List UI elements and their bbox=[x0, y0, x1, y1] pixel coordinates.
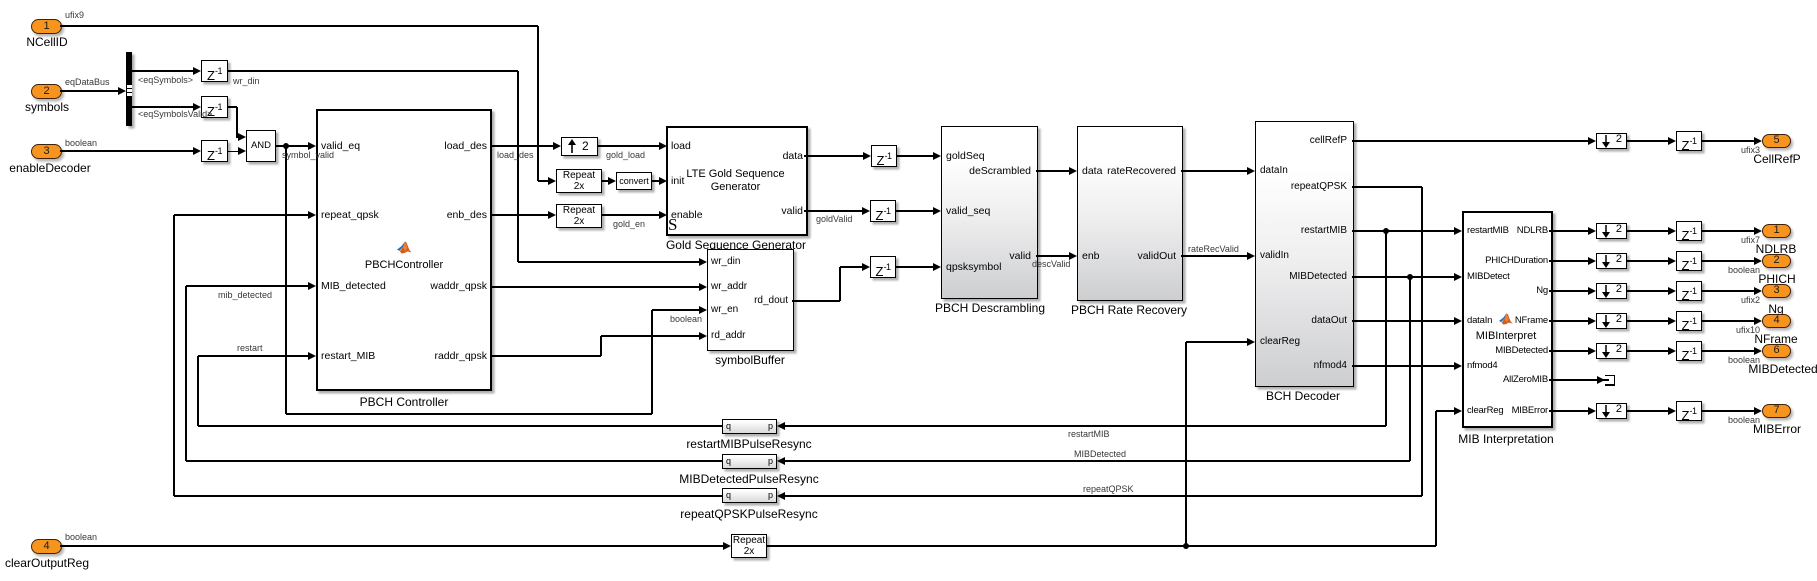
wire clearOutputReg to Repeat2x bbox=[60, 545, 723, 546]
unit delay Z3 enableDecoder bbox=[201, 140, 228, 162]
port label valid desc bbox=[911, 250, 1031, 262]
wire bus eqSymbols to unit delay bbox=[132, 70, 193, 71]
downsample 2 PHICH bbox=[1596, 253, 1627, 269]
block repeatQPSKPulseResync bbox=[722, 488, 777, 503]
downsample 2 MIBError bbox=[1596, 403, 1627, 419]
wire symbol_valid to wr_en bbox=[285, 146, 286, 414]
downsample 2 Ng bbox=[1596, 283, 1627, 299]
port label rateRecovered bbox=[1056, 165, 1176, 177]
junction symbol_valid bbox=[283, 143, 289, 149]
wire to downsample Ng bbox=[1549, 290, 1588, 291]
icon MATLAB logo PBCHController bbox=[397, 240, 412, 254]
label ufix9 bbox=[65, 10, 84, 20]
wire rateRecovered to dataIn bbox=[1181, 170, 1247, 171]
port label dataOut bch bbox=[1227, 315, 1347, 326]
junction MIBDetected bbox=[1407, 274, 1413, 280]
wire Z2 to AND bbox=[228, 106, 237, 107]
wire downsample to delay NFrame bbox=[1627, 320, 1668, 321]
label MIBInterpret bbox=[1356, 330, 1656, 342]
unit delay CellRefP bbox=[1676, 131, 1702, 151]
unit delay MIBDetected bbox=[1676, 341, 1702, 361]
icon S-function badge bbox=[668, 215, 677, 235]
subsystem PBCH Descrambling bbox=[941, 126, 1038, 299]
port label enable bbox=[671, 209, 703, 221]
label PBCH Descrambling bbox=[840, 301, 1140, 315]
port label clearReg mib bbox=[1467, 405, 1503, 416]
block Repeat 2x first bbox=[556, 169, 602, 193]
port label NDLRB mib bbox=[1428, 225, 1548, 236]
unit delay Z5 goldValid bbox=[870, 200, 896, 222]
port label qpsksymbol bbox=[946, 261, 1001, 273]
label MIBDetected bbox=[1633, 362, 1817, 376]
port label data rr bbox=[1082, 165, 1102, 177]
block Repeat 2x second bbox=[556, 204, 602, 228]
label Gold Sequence Generator bbox=[586, 238, 886, 252]
port label wr_din bbox=[711, 256, 740, 267]
port label restartMIB mib bbox=[1467, 225, 1509, 236]
wire gold data to unit delay bbox=[804, 155, 863, 156]
port label data bbox=[683, 150, 803, 162]
junction clearReg bbox=[1183, 543, 1189, 549]
wire Repeat to convert bbox=[602, 180, 608, 181]
label boolean bbox=[1640, 355, 1760, 365]
label wr_din bbox=[233, 76, 260, 86]
unit delay MIBError bbox=[1676, 401, 1702, 421]
unit delay Z2 eqSymbolsValid bbox=[201, 96, 228, 118]
icon MATLAB logo MIBInterpret bbox=[1499, 312, 1513, 325]
wire delay to outport MIBDetected bbox=[1702, 350, 1754, 351]
outport 2 PHICH bbox=[1762, 254, 1791, 268]
downsample 2 NFrame bbox=[1596, 313, 1627, 329]
unit delay Ng bbox=[1676, 281, 1702, 301]
wire NCellID to Repeat2x init bbox=[60, 25, 538, 26]
inport 3 enableDecoder bbox=[31, 144, 62, 159]
subsystem PBCH Rate Recovery bbox=[1077, 126, 1183, 301]
wire wr_din to symbolBuffer bbox=[228, 70, 518, 71]
label ufix2 bbox=[1640, 295, 1760, 305]
label eqDataBus bbox=[65, 77, 110, 87]
wire to downsample NDLRB bbox=[1549, 230, 1588, 231]
label boolean enableDecoder bbox=[65, 138, 97, 148]
port label dataIn mib bbox=[1467, 315, 1492, 326]
port label goldSeq bbox=[946, 150, 985, 162]
wire restartMIB to MIBInterpret bbox=[1352, 230, 1454, 231]
label symbols bbox=[0, 100, 197, 114]
port label load bbox=[671, 140, 691, 152]
wire downsample to delay CellRefP bbox=[1627, 140, 1668, 141]
inport 2 symbols bbox=[31, 84, 62, 99]
port label AllZeroMIB mib bbox=[1428, 374, 1548, 385]
unit delay Z1 eqSymbols bbox=[201, 60, 228, 82]
bus selector bbox=[126, 52, 132, 126]
label repeatQPSK bbox=[1083, 484, 1134, 494]
port label clearReg bch bbox=[1260, 336, 1300, 347]
subsystem MIB Interpretation bbox=[1462, 211, 1553, 428]
subsystem BCH Decoder bbox=[1255, 121, 1354, 387]
wire clearReg trunk bbox=[766, 545, 1436, 546]
wire to downsample NFrame bbox=[1549, 320, 1588, 321]
wire delay to outport NFrame bbox=[1702, 320, 1754, 321]
terminator AllZeroMIB bbox=[1605, 375, 1615, 376]
outport 5 CellRefP bbox=[1762, 134, 1791, 148]
label boolean wr_en bbox=[670, 314, 702, 324]
port label repeatQPSK bch bbox=[1227, 181, 1347, 192]
label ufix7 bbox=[1640, 235, 1760, 245]
label eqSymbols bbox=[138, 75, 193, 85]
wire repeatQPSK feedback bbox=[1352, 186, 1422, 187]
port label MIB_detected bbox=[321, 280, 386, 292]
wire to downsample PHICH bbox=[1549, 260, 1588, 261]
port label valid_eq bbox=[321, 140, 360, 152]
label boolean clearOutputReg bbox=[65, 532, 97, 542]
outport 3 Ng bbox=[1762, 284, 1791, 298]
outport 1 NDLRB bbox=[1762, 224, 1791, 238]
label boolean bbox=[1640, 415, 1760, 425]
port label cellRefP bbox=[1227, 135, 1347, 146]
wire convert to init bbox=[652, 180, 659, 181]
wire dataOut to dataIn bbox=[1352, 320, 1454, 321]
label repeatQPSKPulseResync bbox=[599, 507, 899, 521]
subsystem symbolBuffer bbox=[707, 249, 794, 351]
label PBCH Controller bbox=[254, 395, 554, 409]
port label repeat_qpsk bbox=[321, 209, 379, 221]
wire gold valid to unit delay bbox=[804, 210, 862, 211]
block restartMIBPulseResync bbox=[722, 419, 777, 434]
wire MIBDetected feedback bbox=[1409, 277, 1410, 461]
port label Ng mib bbox=[1428, 285, 1548, 296]
label MIBError bbox=[1627, 422, 1817, 436]
wire Z4 to goldSeq bbox=[897, 155, 933, 156]
wire rateRecValid to validIn bbox=[1181, 255, 1247, 256]
wire bus eqSymbolsValid to unit delay bbox=[132, 106, 193, 107]
wire MIBDetected resync to controller bbox=[186, 460, 722, 461]
label symbolBuffer bbox=[600, 353, 900, 367]
wire MIBDetected to MIBInterpret bbox=[1352, 276, 1454, 277]
label CellRefP bbox=[1627, 152, 1817, 166]
wire symbols to bus selector bbox=[60, 90, 118, 91]
port label PHICHDuration mib bbox=[1428, 255, 1548, 266]
wire delay to outport MIBError bbox=[1702, 410, 1754, 411]
outport 6 MIBDetected bbox=[1762, 344, 1791, 358]
wire restartMIB resync to controller bbox=[198, 425, 722, 426]
port label MIBDetect mib bbox=[1467, 271, 1510, 282]
label rateRecValid bbox=[1188, 244, 1239, 254]
wire delay to outport PHICH bbox=[1702, 260, 1754, 261]
junction restartMIB bbox=[1383, 228, 1389, 234]
wire downsample to delay Ng bbox=[1627, 290, 1668, 291]
port label init bbox=[671, 175, 684, 187]
port label MIBError mib bbox=[1428, 405, 1548, 416]
outport 4 NFrame bbox=[1762, 314, 1791, 328]
unit delay Z6 qpsksymbol bbox=[870, 256, 896, 278]
label ufix3 bbox=[1640, 145, 1760, 155]
label gold_en bbox=[613, 219, 645, 229]
label mib_detected bbox=[218, 290, 272, 300]
wire downsample to delay MIBDetected bbox=[1627, 350, 1668, 351]
label restartMIB bbox=[1068, 429, 1110, 439]
wire to downsample MIBDetected bbox=[1549, 350, 1588, 351]
wire delay to outport NDLRB bbox=[1702, 230, 1754, 231]
outport 7 MIBError bbox=[1762, 404, 1791, 418]
wire gold_en bbox=[602, 214, 659, 215]
wire descValid to enb bbox=[1036, 255, 1069, 256]
port label waddr_qpsk bbox=[367, 280, 487, 292]
port label wr_en bbox=[711, 304, 738, 315]
wire to downsample MIBError bbox=[1549, 410, 1588, 411]
wire repeatQPSK resync to controller bbox=[174, 495, 722, 496]
wire Z3 to AND bbox=[228, 151, 238, 152]
wire enb_des to Repeat2x bbox=[492, 214, 548, 215]
downsample 2 NDLRB bbox=[1596, 223, 1627, 239]
label MIBDetectedPulseResync bbox=[599, 472, 899, 486]
port label validIn bch bbox=[1260, 250, 1289, 261]
wire deScrambled to data bbox=[1036, 170, 1069, 171]
block MIBDetectedPulseResync bbox=[722, 454, 777, 469]
label gold_load bbox=[606, 150, 645, 160]
port label MIBDetected bch bbox=[1227, 271, 1347, 282]
port label MIBDetected mib bbox=[1428, 345, 1548, 356]
block convert bbox=[616, 172, 652, 190]
label LTE Gold Sequence Generator inner bbox=[586, 168, 886, 194]
port label load_des bbox=[367, 140, 487, 152]
wire downsample to delay PHICH bbox=[1627, 260, 1668, 261]
port label validOut bbox=[1056, 250, 1176, 262]
unit delay Z4 goldSeq bbox=[871, 145, 897, 167]
unit delay PHICH bbox=[1676, 251, 1702, 271]
wire Z5 to valid_seq bbox=[896, 210, 933, 211]
label PHICH bbox=[1627, 272, 1817, 286]
wire delay to outport CellRefP bbox=[1702, 140, 1754, 141]
label goldValid bbox=[816, 214, 852, 224]
port label deScrambled bbox=[911, 165, 1031, 177]
label clearOutputReg bbox=[0, 556, 197, 570]
label MIBDetected sig bbox=[1074, 449, 1126, 459]
label boolean bbox=[1640, 265, 1760, 275]
port label enb_des bbox=[367, 209, 487, 221]
port label valid_seq bbox=[946, 205, 990, 217]
label descValid bbox=[1032, 259, 1070, 269]
inport 4 clearOutputReg bbox=[31, 539, 62, 554]
label NFrame bbox=[1626, 332, 1817, 346]
port label NFrame mib bbox=[1428, 315, 1548, 326]
inport 1 NCellID bbox=[31, 19, 62, 34]
port label dataIn bch bbox=[1260, 165, 1288, 176]
wire waddr_qpsk to wr_addr bbox=[492, 286, 699, 287]
label BCH Decoder bbox=[1153, 389, 1453, 403]
downsample 2 MIBDetected bbox=[1596, 343, 1627, 359]
wire enableDecoder to unit delay bbox=[60, 150, 193, 151]
wire restartMIB feedback bbox=[1385, 231, 1386, 426]
label restartMIBPulseResync bbox=[599, 437, 899, 451]
label Ng bbox=[1626, 302, 1817, 316]
label PBCHController bbox=[254, 259, 554, 271]
label eqSymbolsValid bbox=[138, 109, 212, 119]
port label wr_addr bbox=[711, 281, 747, 292]
wire raddr_qpsk to rd_addr bbox=[492, 355, 601, 356]
downsample 2 CellRefP bbox=[1596, 133, 1627, 149]
wire nfmod4 to nfmod4 bbox=[1352, 365, 1454, 366]
wire delay to outport Ng bbox=[1702, 290, 1754, 291]
label NDLRB bbox=[1626, 242, 1817, 256]
label PBCH Rate Recovery bbox=[979, 303, 1279, 317]
subsystem PBCH Controller bbox=[316, 109, 492, 391]
port label nfmod4 bch bbox=[1227, 360, 1347, 371]
wire AND symbol_valid to valid_eq bbox=[276, 145, 308, 146]
unit delay NFrame bbox=[1676, 311, 1702, 331]
label load_des bbox=[497, 150, 534, 160]
wire downsample to delay MIBError bbox=[1627, 410, 1668, 411]
wire downsample to delay NDLRB bbox=[1627, 230, 1668, 231]
label restart bbox=[237, 343, 263, 353]
wire Z6 to qpsksymbol bbox=[896, 266, 933, 267]
port label valid bbox=[683, 205, 803, 217]
upsample 2 block bbox=[561, 137, 598, 156]
port label raddr_qpsk bbox=[367, 350, 487, 362]
port label restartMIB bch bbox=[1227, 225, 1347, 236]
port label nfmod4 mib bbox=[1467, 360, 1498, 371]
wire AllZeroMIB to terminator bbox=[1549, 379, 1597, 380]
wire rd_dout to unit delay bbox=[792, 300, 840, 301]
label NCellID bbox=[0, 35, 197, 49]
port label enb rr bbox=[1082, 250, 1100, 262]
label MIB Interpretation bbox=[1356, 432, 1656, 446]
logic AND bbox=[246, 130, 276, 162]
label symbol_valid bbox=[282, 150, 334, 160]
label enableDecoder bbox=[0, 161, 200, 175]
unit delay NDLRB bbox=[1676, 221, 1702, 241]
wire cellRefP to downsample bbox=[1352, 140, 1588, 141]
wire clearReg branch to BCH bbox=[1185, 342, 1186, 546]
port label rd_dout bbox=[668, 295, 788, 306]
port label rd_addr bbox=[711, 330, 745, 341]
subsystem LTE Gold Sequence Generator bbox=[666, 126, 808, 236]
block Repeat 2x third bbox=[731, 534, 767, 558]
wire load_des to upsample bbox=[492, 145, 553, 146]
label ufix10 bbox=[1640, 325, 1760, 335]
wire gold_load bbox=[598, 145, 659, 146]
port label restart_MIB bbox=[321, 350, 375, 362]
